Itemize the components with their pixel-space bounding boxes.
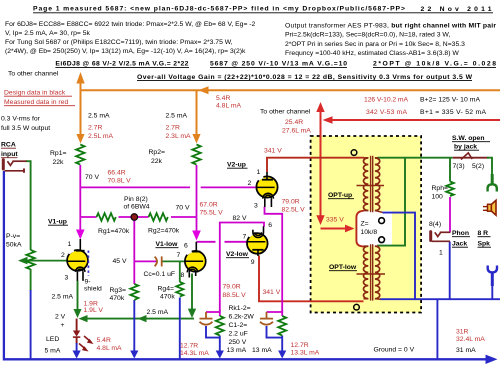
OPT-up primary terminal [351, 150, 357, 156]
svg-text:Pin 8(2): Pin 8(2) [124, 196, 148, 203]
svg-text:13 mA: 13 mA [227, 347, 247, 354]
svg-text:5(2): 5(2) [472, 163, 484, 170]
svg-text:Design data in black: Design data in black [4, 90, 66, 97]
svg-text:66.4R: 66.4R [108, 170, 126, 177]
svg-text:RCA: RCA [1, 142, 16, 149]
wire pot bottom blue to bus [30, 290, 32, 359]
svg-text:25.4R: 25.4R [285, 119, 303, 126]
svg-text:To other channel: To other channel [8, 71, 59, 78]
svg-text:2.2 uF: 2.2 uF [229, 331, 248, 338]
svg-text:OPT-up: OPT-up [328, 192, 352, 199]
svg-text:2: 2 [61, 252, 65, 259]
svg-text:2.5 mA: 2.5 mA [166, 113, 188, 120]
svg-text:6: 6 [184, 243, 188, 250]
svg-text:Frequncy =100-40 kHz, estimate: Frequncy =100-40 kHz, estimated Class-AB… [285, 50, 459, 57]
svg-text:45 V: 45 V [113, 258, 127, 265]
svg-text:12.7R: 12.7R [180, 343, 198, 350]
svg-text:Output transformer AES PT-983,: Output transformer AES PT-983, but right… [285, 23, 496, 30]
svg-text:Ei6DJ8 @ 68 V/-2 V/2.5 mA V.G.: Ei6DJ8 @ 68 V/-2 V/2.5 mA V.G.= 2*22 [55, 61, 188, 68]
Z series terminals [379, 218, 385, 224]
wire OPT-up secondary bottom blue [383, 213, 416, 300]
capacitor C1-2 left 2.2uF [205, 312, 207, 318]
wire B+2 drop to Rp2 [196, 90, 198, 135]
svg-text:V, Ip= 2.5 mA, A= 30, rp= 5k: V, Ip= 2.5 mA, A= 30, rp= 5k [5, 30, 91, 37]
wire V2-low plate 341V to OPT-low primary [259, 256, 364, 302]
svg-text:82.5L V: 82.5L V [282, 207, 306, 214]
svg-text:Rg2=470k: Rg2=470k [148, 228, 180, 235]
OPT-low primary winding [363, 246, 368, 298]
svg-text:OPT-low: OPT-low [329, 264, 357, 271]
wire switch to speaker jack darkred [453, 157, 489, 159]
wire Rk left top lead [219, 310, 221, 316]
svg-text:C1-2=: C1-2= [229, 322, 248, 329]
resistor Rp1 22k [76, 145, 84, 165]
svg-text:5687 @ 250 V/-10 V/13 mA V.G.=: 5687 @ 250 V/-10 V/13 mA V.G.=10 [210, 61, 347, 68]
svg-text:input: input [1, 151, 18, 158]
svg-text:1: 1 [439, 250, 443, 257]
LED bias diode [73, 331, 80, 337]
phone jack [429, 230, 432, 242]
svg-text:7: 7 [177, 252, 181, 259]
svg-text:2.3L mA: 2.3L mA [166, 133, 192, 140]
wire V1-low cathode down [191, 274, 193, 311]
svg-text:22 Nov 2011: 22 Nov 2011 [421, 6, 492, 13]
svg-text:13.3L mA: 13.3L mA [291, 350, 320, 357]
OPT-low tap bar [357, 273, 386, 275]
wire C1-2 right bottom [267, 326, 283, 338]
speaker icon [491, 200, 496, 215]
potentiometer P-v 50kA [26, 250, 34, 269]
svg-text:2.7R: 2.7R [166, 125, 180, 132]
svg-text:9: 9 [251, 259, 255, 266]
wire OPT primary series link Z [356, 211, 363, 247]
wire V2-up cathode down to Rk right [265, 207, 283, 313]
wire 45V branch to Cc [134, 260, 157, 262]
svg-text:(2*4W), @ Eb= 250(250) V, Ip=: (2*4W), @ Eb= 250(250) V, Ip= 13(12) mA,… [5, 48, 246, 55]
wire Rg4 top lead [179, 261, 181, 282]
TEXTBLOCK [1, 6, 496, 133]
svg-text:67.0R: 67.0R [200, 202, 218, 209]
svg-text:B+1 = 335 V- 52 mA: B+1 = 335 V- 52 mA [420, 109, 486, 116]
svg-text:1: 1 [257, 169, 261, 176]
svg-text:To other channel: To other channel [260, 109, 311, 116]
svg-text:70.8L V: 70.8L V [108, 178, 132, 185]
svg-text:79.0R: 79.0R [282, 199, 300, 206]
svg-text:Measured data in red: Measured data in red [4, 99, 68, 106]
svg-text:6: 6 [268, 222, 272, 229]
wire pot bottom green [30, 269, 32, 291]
svg-text:22k: 22k [53, 159, 65, 166]
svg-text:LED: LED [46, 336, 59, 343]
svg-text:2.5 mA: 2.5 mA [52, 294, 74, 301]
svg-text:Rg3=: Rg3= [110, 287, 126, 294]
svg-text:3: 3 [254, 203, 258, 210]
Z impedance white panel [356, 211, 392, 247]
resistor Rp2 22k [192, 145, 200, 165]
svg-text:6.2k-2W: 6.2k-2W [229, 314, 255, 321]
svg-text:13 mA: 13 mA [252, 347, 272, 354]
output transformer dashed enclosure [311, 136, 422, 313]
OPT-up core [370, 156, 372, 212]
resistor Rg2 470k horizontal [149, 213, 168, 221]
svg-text:3: 3 [65, 275, 69, 282]
wire Rk left bottom to bus [219, 336, 221, 353]
svg-text:by jack: by jack [454, 144, 477, 151]
V1-up shield dashes [87, 251, 89, 277]
wire Rg3 bottom blue [133, 300, 135, 352]
svg-text:4.8L mA: 4.8L mA [97, 345, 123, 352]
wire phone jack sleeve to blue rail [449, 242, 451, 300]
svg-text:9-: 9- [85, 279, 91, 286]
wire ground drop from speaker rail [436, 299, 438, 358]
svg-text:+: + [61, 322, 65, 329]
svg-text:4.8L mA: 4.8L mA [216, 103, 242, 110]
svg-text:79.0R: 79.0R [223, 284, 241, 291]
wire Rk right bottom to bus [281, 336, 283, 353]
svg-text:Ground = 0 V: Ground = 0 V [374, 347, 415, 354]
svg-text:V1-low: V1-low [156, 241, 179, 248]
svg-text:470k: 470k [110, 295, 125, 302]
OPT-up primary winding [364, 158, 369, 211]
capacitor C1-2 right 2.2uF [266, 312, 268, 318]
wire B+2 drop to Rp1 [80, 90, 82, 135]
svg-text:12.7R: 12.7R [291, 342, 309, 349]
svg-text:8 R: 8 R [478, 230, 489, 237]
OPT-up secondary winding [375, 158, 380, 211]
wire V1-up plate to V2-up grid [80, 186, 190, 188]
svg-text:5.4R: 5.4R [97, 337, 111, 344]
svg-text:10k/8: 10k/8 [361, 229, 378, 236]
resistor Rph 100 [446, 182, 454, 196]
svg-text:Jack: Jack [452, 241, 467, 248]
svg-text:2.5L mA: 2.5L mA [88, 133, 114, 140]
wire B+2 arrow into Rp2 node [198, 86, 208, 94]
svg-text:341 V: 341 V [263, 289, 281, 296]
wire Rph bottom to phone jack [449, 197, 451, 232]
wire 335V arrow to primary series point [321, 228, 347, 230]
svg-text:B+2= 125 V- 10 mA: B+2= 125 V- 10 mA [420, 97, 480, 104]
wire B+1 to other channel up [320, 111, 322, 120]
wire V2-up plate 341V to OPT-up primary [267, 158, 364, 172]
wire B+1 red rail [330, 119, 500, 121]
wire Rg4 bottom blue [179, 298, 181, 360]
svg-text:88.5L V: 88.5L V [223, 292, 247, 299]
svg-text:For 6DJ8= ECC88= E88CC= 6922: For 6DJ8= ECC88= E88CC= 6922 twin triode… [5, 21, 256, 28]
svg-text:Over-all Voltage Gain = (22+22: Over-all Voltage Gain = (22+22)*10*0.028… [137, 74, 473, 81]
resistor Rg4 470k [176, 282, 183, 296]
svg-text:2.5 mA: 2.5 mA [88, 113, 110, 120]
svg-text:Rph=: Rph= [432, 185, 448, 192]
wire V1-up cathode down [77, 281, 79, 311]
svg-text:V1-up: V1-up [48, 219, 67, 226]
svg-text:Phon: Phon [452, 230, 469, 237]
capacitor Cc 0.1uF [155, 257, 157, 267]
svg-text:31 mA: 31 mA [456, 347, 476, 354]
switch blade [461, 153, 472, 160]
speaker jack blue fork [488, 266, 497, 273]
svg-text:2*OPT Pri in series Sec in par: 2*OPT Pri in series Sec in para or Pri =… [285, 41, 465, 48]
wire B+2 to other channel up [80, 83, 82, 90]
svg-text:shield: shield [84, 286, 102, 293]
svg-text:V2-up: V2-up [227, 162, 246, 169]
svg-text:22k: 22k [151, 158, 163, 165]
OPTBOX [311, 136, 422, 313]
OPT-up tap bar [357, 185, 385, 187]
svg-text:70 V: 70 V [85, 174, 99, 181]
wire Rph top lead [449, 158, 451, 182]
OPT-low core [370, 244, 372, 300]
wire B+1 drop into OPT centre [320, 120, 322, 216]
svg-text:Z=: Z= [361, 221, 369, 228]
triode V1-low [185, 242, 206, 278]
wire speaker plug green corner [487, 158, 492, 175]
svg-text:2 V: 2 V [55, 314, 66, 321]
svg-text:Cc=0.1 uF: Cc=0.1 uF [144, 271, 176, 278]
OPT-low secondary winding [375, 246, 380, 298]
resistor Rk1-2 right 6.2k [278, 316, 286, 336]
svg-text:Rp2=: Rp2= [149, 149, 165, 156]
svg-text:8: 8 [181, 272, 185, 279]
svg-text:31R: 31R [456, 329, 469, 336]
wire LED to ground [76, 319, 78, 331]
wire RCA tip to volume pot [26, 161, 31, 250]
wire Rp1 to V1-up plate [79, 165, 81, 231]
wire B+2 orange rail [81, 89, 500, 91]
svg-text:Spk: Spk [478, 241, 491, 248]
svg-text:8(4): 8(4) [429, 221, 441, 228]
triode V2-low inverted [247, 226, 268, 256]
svg-text:Page 1 measured 5687: <new pla: Page 1 measured 5687: <new plan-6DJ8-dc-… [33, 6, 405, 13]
svg-text:7: 7 [243, 234, 247, 241]
wire OPT-up secondary top green out [377, 157, 453, 159]
svg-text:V2-low: V2-low [226, 251, 249, 258]
triode V2-up [256, 172, 277, 207]
svg-text:1.9L V: 1.9L V [84, 307, 104, 314]
RCA input jack [2, 158, 5, 170]
svg-text:5 mA: 5 mA [45, 348, 61, 355]
wire ground bus [4, 171, 486, 359]
svg-text:P-v=: P-v= [6, 233, 20, 240]
svg-text:Rp1=: Rp1= [50, 150, 66, 157]
svg-text:5.4R: 5.4R [216, 95, 230, 102]
svg-text:470k: 470k [160, 294, 175, 301]
svg-text:75.5L V: 75.5L V [200, 210, 224, 217]
wire secondary parallel green down [377, 158, 405, 246]
LED light arrows [84, 336, 91, 342]
wire Cc to V1-low grid green [162, 260, 185, 262]
svg-text:14.3L mA: 14.3L mA [180, 350, 209, 357]
svg-text:341 V: 341 V [264, 148, 282, 155]
svg-text:0.3 V-rms for: 0.3 V-rms for [1, 116, 41, 123]
svg-text:full 3.5 W output: full 3.5 W output [1, 125, 50, 132]
svg-text:27.6L mA: 27.6L mA [282, 128, 311, 135]
triode V1-up [67, 239, 88, 281]
wire speaker return blue rail [380, 298, 500, 300]
svg-text:50kA: 50kA [6, 242, 22, 249]
resistor Rg3 470k [130, 284, 138, 300]
wire Rp2 to V1-low plate [196, 165, 198, 232]
svg-text:Pri=2.5k(dcR=133), Sec=8(dcR=0: Pri=2.5k(dcR=133), Sec=8(dcR=0.0), N=18,… [285, 32, 450, 39]
svg-text:70 V: 70 V [176, 205, 190, 212]
wire V2-low cathode 82V down to Rk left [206, 223, 264, 313]
svg-text:126 V-10.2 mA: 126 V-10.2 mA [364, 97, 408, 104]
PARTS [2, 145, 497, 352]
wire pot wiper to V1-up grid [25, 260, 68, 262]
svg-text:For Tung Sol 5687 or (Philips: For Tung Sol 5687 or (Philips E182CC=711… [5, 39, 233, 46]
svg-text:1: 1 [68, 241, 72, 248]
wire cathode feedback row green [84, 318, 194, 320]
OPT-low bottom terminal [354, 304, 360, 310]
svg-text:Rg1=470k: Rg1=470k [98, 228, 130, 235]
svg-text:82 V: 82 V [233, 215, 247, 222]
wire grid-resistor row [80, 216, 96, 218]
svg-text:2.7R: 2.7R [88, 125, 102, 132]
svg-text:of 6BW4: of 6BW4 [124, 204, 150, 211]
svg-text:32.4L mA: 32.4L mA [456, 336, 485, 343]
svg-text:2: 2 [248, 180, 252, 187]
wire V1-low plate to V2-low grid [197, 241, 216, 243]
svg-text:Rg4=: Rg4= [158, 286, 174, 293]
wire C1-2 left bottom [206, 326, 220, 338]
svg-text:100: 100 [432, 194, 444, 201]
svg-text:250 V: 250 V [229, 339, 247, 346]
junction node pin8 of 6BW4 [131, 214, 138, 221]
wire 6BW4 node down to Rg3 [133, 221, 135, 285]
resistor Rg1 470k horizontal [97, 213, 116, 221]
wire Rk right top lead [281, 310, 283, 316]
svg-text:2.5 mA: 2.5 mA [147, 309, 169, 316]
resistor Rk1-2 left 6.2k [216, 316, 224, 336]
svg-text:7(3): 7(3) [453, 163, 465, 170]
svg-text:335 V: 335 V [326, 217, 344, 224]
svg-text:342 V-53 mA: 342 V-53 mA [366, 109, 407, 116]
svg-text:S.W. open: S.W. open [452, 135, 484, 142]
speaker plug green fork [488, 184, 497, 191]
svg-text:Rk1-2=: Rk1-2= [229, 305, 251, 312]
